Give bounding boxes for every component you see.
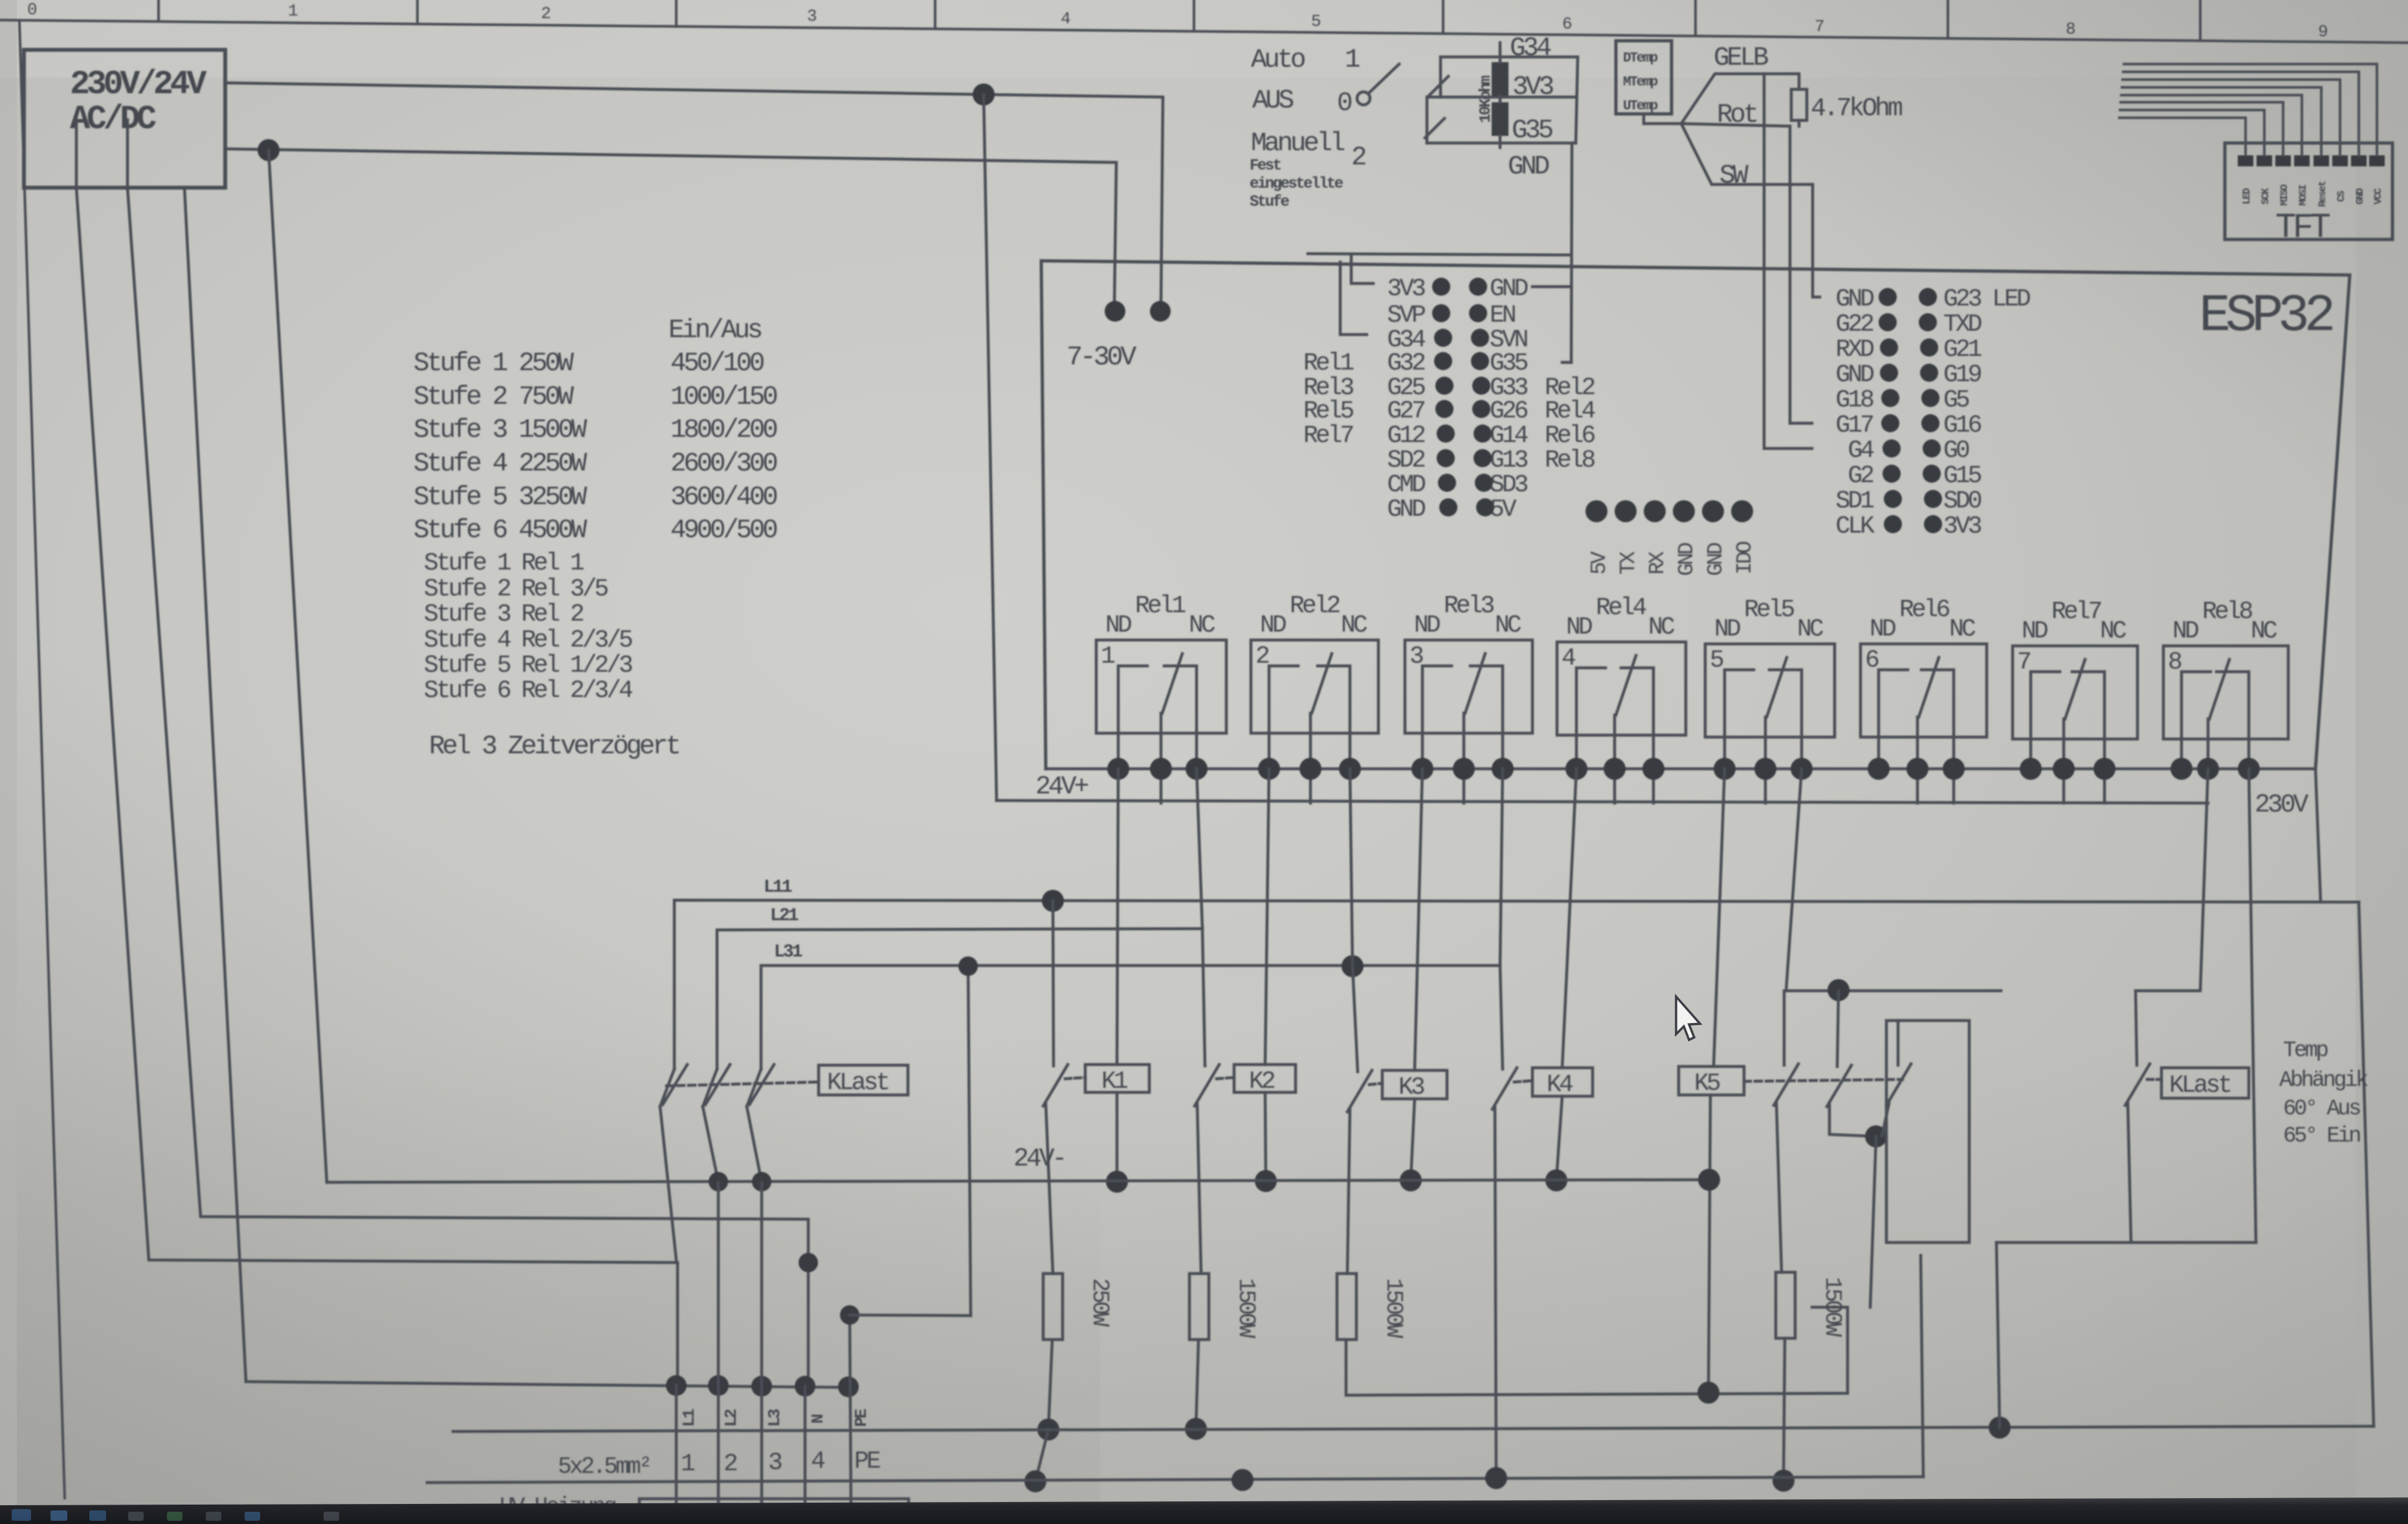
taskbar: [0, 1497, 2408, 1524]
connector label 3V3: [1512, 72, 1553, 102]
svg-text:G2: G2: [1848, 462, 1873, 490]
svg-text:GND: GND: [1836, 361, 1874, 389]
terminal 2: [708, 1375, 729, 1396]
svg-text:TXD: TXD: [1943, 311, 1982, 338]
svg-text:GND: GND: [1508, 152, 1549, 182]
wire H2 N return: [453, 1426, 2374, 1431]
svg-text:ND: ND: [1870, 615, 1895, 643]
relay Rel2: [1251, 592, 1378, 803]
load R3 1500W: [1337, 1274, 1356, 1340]
wire TFT bundle 3: [2123, 80, 2340, 155]
svg-text:GELB: GELB: [1714, 43, 1769, 73]
svg-text:24V+: 24V+: [1035, 773, 1088, 802]
wire TFT bundle 6: [2121, 102, 2283, 155]
svg-text:Rel5: Rel5: [1744, 596, 1794, 624]
svg-text:DTemp: DTemp: [1623, 51, 1658, 66]
svg-text:7: 7: [1815, 17, 1824, 36]
ruler baseline: [0, 20, 2408, 43]
svg-text:Rel4: Rel4: [1545, 397, 1595, 425]
TFT pins: [2238, 155, 2385, 166]
svg-text:ND: ND: [1714, 615, 1740, 643]
node 24V+ junction: [973, 83, 995, 105]
wire Rel2 NC to L31 to K3 contact: [1350, 769, 1358, 1072]
svg-text:Stufe 3 1500W: Stufe 3 1500W: [414, 415, 588, 445]
node t3 24V-: [752, 1172, 771, 1191]
svg-text:AC/DC: AC/DC: [70, 100, 156, 138]
svg-text:Rel4: Rel4: [1596, 594, 1646, 622]
svg-text:K5: K5: [1694, 1070, 1720, 1098]
wire Rot horizontal: [1681, 124, 1790, 126]
svg-text:24V-: 24V-: [1013, 1145, 1065, 1174]
wire Rel5 NC to K5 contacts bracket: [1786, 769, 1802, 991]
svg-text:Reset: Reset: [2317, 181, 2328, 207]
svg-text:Rel8: Rel8: [2202, 598, 2252, 626]
wire TFT bundle 2: [2123, 72, 2359, 155]
svg-text:3V3: 3V3: [1387, 275, 1426, 303]
svg-text:PE: PE: [854, 1448, 880, 1475]
svg-text:SD1: SD1: [1836, 487, 1874, 515]
svg-text:8: 8: [2066, 19, 2075, 39]
terminal labels rotated: [679, 1409, 871, 1427]
connector label G34: [1510, 34, 1551, 63]
svg-text:0: 0: [27, 0, 36, 19]
wire R1 to N: [1048, 1340, 1052, 1430]
resistor R 10Kohm upper: [1492, 62, 1508, 96]
svg-text:Rel1: Rel1: [1303, 349, 1353, 377]
terminal block: [246, 956, 978, 1520]
ESP32 left header Rel labels: [1303, 349, 1595, 474]
svg-text:eingestellte: eingestellte: [1250, 175, 1343, 193]
selector lever: [1357, 92, 1370, 105]
label 24V+: [1035, 773, 1088, 802]
svg-text:SD2: SD2: [1387, 447, 1426, 474]
wire K5 to 24V- to H1: [1708, 1095, 1710, 1393]
svg-text:CLK: CLK: [1836, 513, 1875, 540]
svg-text:G35: G35: [1512, 116, 1552, 146]
svg-text:K1: K1: [1101, 1068, 1127, 1096]
TFT module box: [2225, 143, 2392, 239]
svg-text:KLast: KLast: [827, 1069, 888, 1097]
svg-text:NC: NC: [1797, 615, 1824, 643]
svg-text:2: 2: [724, 1450, 737, 1478]
svg-text:G17: G17: [1836, 412, 1873, 439]
wire SW down to GND: [1813, 184, 1820, 297]
bracket UV: [639, 1499, 909, 1510]
svg-text:SD0: SD0: [1943, 487, 1982, 515]
wire L11: [674, 900, 2359, 1069]
svg-text:G5: G5: [1943, 386, 1969, 414]
rail 24V-: [327, 1180, 1708, 1182]
svg-text:Stufe 5 Rel 1/2/3: Stufe 5 Rel 1/2/3: [424, 652, 632, 679]
wire Rel3 NO to K3: [1415, 769, 1422, 1070]
wire R4 top from K5 contact: [1780, 1271, 1784, 1274]
svg-text:3600/400: 3600/400: [670, 483, 777, 513]
linkage dashes: [667, 1082, 819, 1086]
svg-text:G19: G19: [1943, 361, 1982, 389]
wire bracket to 3V3 pin: [1308, 254, 1571, 255]
svg-text:Abhängik: Abhängik: [2279, 1068, 2368, 1093]
wire TFT bundle 4: [2122, 87, 2321, 155]
svg-text:Stufe 3 Rel 2: Stufe 3 Rel 2: [424, 601, 584, 628]
note UV Heizung: [500, 1494, 615, 1520]
svg-text:Auto: Auto: [1251, 45, 1305, 75]
TFT pin labels: [2241, 181, 2384, 207]
svg-text:60° Aus: 60° Aus: [2283, 1097, 2360, 1121]
svg-text:G22: G22: [1836, 311, 1874, 338]
svg-text:G26: G26: [1490, 397, 1528, 425]
svg-text:RXD: RXD: [1836, 336, 1874, 364]
svg-text:Stufe 2 Rel 3/5: Stufe 2 Rel 3/5: [424, 575, 608, 603]
wire Rot down to G17: [1790, 126, 1812, 423]
svg-text:3: 3: [807, 6, 816, 26]
svg-text:K2: K2: [1249, 1068, 1275, 1096]
svg-text:SVP: SVP: [1387, 302, 1426, 329]
svg-text:Rel7: Rel7: [1303, 422, 1353, 450]
node t2 24V-: [709, 1172, 728, 1191]
ruler tick 0/1: [157, 0, 160, 21]
coil K2: [1234, 1065, 1296, 1092]
svg-text:Rel8: Rel8: [1545, 447, 1595, 474]
svg-text:L11: L11: [764, 878, 792, 898]
temp sensor block: [1616, 41, 1672, 114]
note temp thresholds: [2279, 1039, 2368, 1149]
relay Rel6: [1861, 596, 1987, 803]
connector cell line G35: [1427, 142, 1576, 145]
svg-text:Rel1: Rel1: [1135, 592, 1185, 620]
linkage K5: [1744, 1079, 1903, 1081]
coil K1: [1085, 1065, 1149, 1092]
svg-text:65° Ein: 65° Ein: [2283, 1124, 2360, 1149]
connector cell line 3V3: [1427, 97, 1574, 143]
svg-text:GND: GND: [1836, 285, 1874, 313]
taskbar icons: [12, 1509, 339, 1521]
svg-text:5: 5: [1710, 646, 1723, 674]
svg-text:K4: K4: [1547, 1071, 1573, 1099]
wire stub to ESP G35 pin: [1562, 361, 1571, 364]
svg-text:Rel7: Rel7: [2051, 598, 2101, 626]
svg-text:450/100: 450/100: [670, 349, 764, 379]
svg-text:2: 2: [541, 4, 550, 23]
wire H0: [246, 1382, 851, 1387]
svg-text:G16: G16: [1943, 412, 1982, 439]
terminal drops: [660, 1107, 676, 1260]
mouse cursor: [1676, 997, 1700, 1040]
svg-text:4900/500: 4900/500: [670, 516, 777, 546]
svg-text:GND: GND: [1387, 496, 1426, 524]
svg-text:SW: SW: [1719, 161, 1749, 191]
page frame left border: [19, 21, 65, 1498]
wire 24V- feed down-left: [269, 150, 327, 1182]
terminal 1: [666, 1375, 687, 1396]
left edge shading: [0, 0, 17, 1524]
svg-text:G21: G21: [1943, 336, 1982, 364]
svg-text:1: 1: [1345, 45, 1360, 75]
wire temp block to cable: [1644, 114, 1681, 124]
wire Rel1 NC to L21 to K2 contact: [1197, 769, 1205, 1066]
svg-text:CS: CS: [2336, 190, 2347, 202]
pin 7-30V left: [1105, 301, 1125, 322]
svg-text:0: 0: [1337, 89, 1352, 118]
svg-text:230V: 230V: [2255, 791, 2308, 820]
wire PE from box bottom: [184, 188, 246, 1381]
contact K4: [1492, 1068, 1532, 1478]
connector cell line G34: [1441, 57, 1578, 143]
wire Rel4 NO to K4: [1562, 769, 1576, 1068]
contact K1: [1043, 901, 1085, 1274]
riser H2 to temp loop: [1996, 1242, 2000, 1428]
contact KLast temp: [1870, 1021, 1911, 1307]
svg-text:G23 LED: G23 LED: [1943, 285, 2030, 313]
svg-text:KLast: KLast: [2169, 1072, 2230, 1099]
svg-text:1: 1: [1101, 643, 1114, 670]
wire bottom right horizontal: [1996, 1241, 2256, 1244]
selector contact upper: [1429, 76, 1448, 96]
selector contact lower: [1425, 118, 1444, 138]
svg-text:MISO: MISO: [2279, 184, 2290, 206]
svg-text:Temp: Temp: [2283, 1039, 2328, 1063]
ruler tick 4/5: [1193, 0, 1195, 31]
svg-text:UTemp: UTemp: [1623, 99, 1658, 114]
svg-text:Stufe 2 750W: Stufe 2 750W: [414, 382, 574, 412]
wire GELB down to G4: [1764, 74, 1812, 448]
serial header labels: [1587, 541, 1757, 576]
contact K2: [1195, 1065, 1234, 1274]
wire stub to ESP GND pin: [1532, 285, 1571, 289]
svg-text:Rel3: Rel3: [1444, 592, 1494, 620]
svg-text:1: 1: [288, 1, 298, 21]
wire R2 to N: [1196, 1340, 1198, 1429]
wire TFT bundle 5: [2121, 95, 2302, 155]
load R1 250W: [1043, 1274, 1063, 1340]
wire 24V+ out top: [225, 83, 1163, 304]
svg-text:3: 3: [768, 1449, 782, 1477]
coil K5: [1679, 1066, 1744, 1095]
ruler tick 1/2: [416, 0, 419, 24]
svg-text:1800/200: 1800/200: [670, 415, 777, 445]
ESP32 right header pins: [1879, 288, 1942, 533]
wire L31 tap down: [968, 966, 971, 1316]
svg-text:Stufe 5 3250W: Stufe 5 3250W: [414, 483, 588, 513]
svg-text:SCK: SCK: [2260, 188, 2271, 204]
wire L21: [717, 929, 1202, 1069]
wire K3 to 24V-: [1411, 1099, 1415, 1180]
svg-text:RX: RX: [1646, 551, 1670, 575]
resistor 4.7kOhm: [1791, 89, 1807, 120]
svg-text:Stufe 1 Rel 1: Stufe 1 Rel 1: [424, 549, 584, 577]
contactor KLast left contacts: [660, 1065, 819, 1260]
wire 24V- out: [225, 149, 1116, 304]
svg-text:Rel 3 Zeitverzögert: Rel 3 Zeitverzögert: [429, 732, 679, 762]
svg-text:G15: G15: [1943, 462, 1982, 490]
svg-text:L3: L3: [765, 1409, 784, 1427]
ruler numbers: [27, 0, 2327, 41]
ruler tick 8/9: [2199, 0, 2202, 41]
label SW: [1719, 161, 1749, 191]
svg-text:GND: GND: [2354, 188, 2366, 204]
ruler tick 2/3: [675, 0, 678, 27]
rail 24V+: [997, 801, 2208, 803]
svg-text:G4: G4: [1848, 437, 1873, 465]
svg-text:1000/150: 1000/150: [670, 382, 777, 412]
wire K4 to 24V-: [1556, 1096, 1562, 1180]
wire TFT bundle 7: [2120, 110, 2264, 155]
wire L31: [761, 966, 1500, 1069]
svg-text:Rel6: Rel6: [1899, 596, 1949, 624]
svg-text:Stufe 4 Rel 2/3/5: Stufe 4 Rel 2/3/5: [424, 626, 632, 654]
svg-text:9: 9: [2318, 22, 2327, 41]
wire PE to loads: [850, 1315, 971, 1316]
wire L11 right drop: [2359, 902, 2374, 1426]
coil KLast right: [2161, 1068, 2249, 1098]
svg-text:K3: K3: [1398, 1074, 1424, 1101]
terminal numbers: [558, 1448, 880, 1480]
svg-text:N: N: [808, 1415, 828, 1424]
svg-text:10Kohm: 10Kohm: [1477, 76, 1495, 123]
connector label GND: [1508, 152, 1549, 182]
svg-text:4: 4: [1061, 9, 1070, 28]
svg-text:GND: GND: [1675, 542, 1699, 576]
svg-text:4: 4: [1562, 645, 1575, 672]
svg-text:NC: NC: [1648, 613, 1675, 641]
wire Rel1 NO to K1: [1117, 769, 1118, 1065]
svg-text:G12: G12: [1387, 422, 1426, 450]
wire GND down to ESP: [1571, 143, 1572, 362]
svg-text:ND: ND: [1566, 613, 1592, 641]
svg-text:GND: GND: [1490, 275, 1528, 303]
svg-text:NC: NC: [2100, 617, 2126, 645]
wire TFT bundle 1: [2124, 64, 2377, 155]
svg-text:NC: NC: [2251, 617, 2277, 645]
svg-text:230V/24V: 230V/24V: [70, 65, 207, 104]
ruler tick 6/7: [1694, 0, 1697, 36]
svg-text:ND: ND: [1414, 612, 1440, 639]
svg-text:LED: LED: [2241, 188, 2253, 204]
loop temp contact: [1886, 1021, 1969, 1242]
svg-text:ND: ND: [1260, 612, 1286, 639]
node L31 tap: [1342, 955, 1364, 977]
svg-text:Stufe 4 2250W: Stufe 4 2250W: [414, 449, 588, 479]
wire 24V+ feed down to rail: [984, 94, 997, 801]
svg-text:ESP32: ESP32: [2199, 286, 2332, 346]
relay Rel8: [2163, 598, 2288, 780]
ESP32 right header labels: [1836, 285, 1875, 540]
cable hexagon: [1681, 74, 1813, 184]
wire H3 PE return: [427, 1477, 1923, 1483]
svg-text:G32: G32: [1387, 349, 1426, 377]
svg-text:NC: NC: [1341, 612, 1367, 639]
svg-text:Manuell: Manuell: [1251, 129, 1345, 159]
load R2 1500W: [1189, 1274, 1209, 1340]
wire TFT bundle 8: [2119, 118, 2246, 155]
power supply 230V/24V AC/DC box: [24, 50, 225, 188]
bus 230V relay commons: [1046, 768, 2315, 771]
coil KLast left: [819, 1065, 908, 1095]
wire N from box to terminal 4: [127, 120, 808, 1386]
svg-text:250W: 250W: [1087, 1278, 1113, 1327]
svg-text:8: 8: [2168, 648, 2182, 676]
serial header pins: [1585, 500, 1753, 522]
node L11 K1 tap: [1042, 890, 1064, 912]
svg-text:VCC: VCC: [2372, 188, 2384, 204]
svg-text:G0: G0: [1943, 437, 1969, 465]
svg-text:TFT: TFT: [2275, 208, 2330, 248]
relay Rel1: [1096, 592, 1226, 803]
svg-text:4.7kOhm: 4.7kOhm: [1811, 94, 1902, 124]
svg-text:IDO: IDO: [1733, 541, 1757, 575]
contact K3: [1347, 1070, 1382, 1274]
node 24V- junction: [258, 139, 280, 161]
wire K1 to 24V-: [1116, 1092, 1119, 1182]
ruler tick 3/4: [934, 0, 936, 28]
svg-text:NC: NC: [1495, 612, 1521, 639]
svg-text:Rel6: Rel6: [1545, 422, 1595, 450]
svg-text:ND: ND: [1105, 612, 1131, 639]
svg-text:Fest: Fest: [1250, 157, 1281, 175]
svg-text:CMD: CMD: [1387, 471, 1426, 499]
wire R3 to H1: [1346, 1307, 1848, 1395]
svg-text:Rel2: Rel2: [1290, 592, 1340, 620]
svg-text:NC: NC: [1949, 615, 1976, 643]
wire Rel5 NO to K5: [1714, 769, 1725, 1066]
wire K2 to 24V-: [1265, 1092, 1266, 1181]
svg-text:SD3: SD3: [1490, 471, 1528, 499]
label GELB: [1714, 43, 1769, 73]
wire Rel2 NO to K2: [1265, 769, 1269, 1065]
ruler tick 7/8: [1947, 0, 1949, 38]
label 230V: [2255, 791, 2308, 820]
svg-text:G34: G34: [1510, 34, 1551, 63]
svg-text:6: 6: [1562, 14, 1571, 34]
svg-text:Stufe 1 250W: Stufe 1 250W: [414, 349, 574, 379]
svg-text:ND: ND: [2022, 617, 2048, 645]
relay Rel5: [1705, 596, 1835, 803]
svg-text:5x2.5mm²: 5x2.5mm²: [558, 1453, 650, 1480]
svg-text:L31: L31: [774, 942, 802, 962]
svg-text:PE: PE: [852, 1409, 871, 1427]
terminal PE: [838, 1376, 859, 1397]
svg-text:G14: G14: [1490, 422, 1528, 450]
wire L1 from box to terminal 1: [76, 120, 678, 1386]
svg-text:L2: L2: [722, 1409, 741, 1427]
right edge shading: [2356, 0, 2408, 1524]
svg-text:GND: GND: [1704, 542, 1728, 576]
svg-text:2600/300: 2600/300: [670, 449, 777, 479]
svg-text:G13: G13: [1490, 447, 1528, 474]
relay Rel3: [1405, 592, 1532, 803]
svg-text:MTemp: MTemp: [1623, 75, 1658, 90]
svg-text:1500W: 1500W: [1819, 1277, 1846, 1337]
node N x L1 feed: [799, 1253, 818, 1272]
svg-text:L21: L21: [770, 906, 799, 926]
connector label G35: [1512, 116, 1552, 146]
value 10Kohm: [1477, 76, 1495, 123]
svg-text:1: 1: [681, 1450, 694, 1478]
svg-text:5V: 5V: [1587, 551, 1611, 575]
relay Rel7: [2013, 598, 2137, 803]
svg-text:G18: G18: [1836, 386, 1874, 414]
svg-text:Ein/Aus: Ein/Aus: [668, 316, 762, 346]
wire Rel3 NC to L31 corner to K4 contact: [1500, 769, 1503, 1069]
svg-text:Rel5: Rel5: [1303, 397, 1353, 425]
contact KLast right: [2125, 1064, 2161, 1242]
terminal 3: [751, 1376, 772, 1397]
contact K5 b: [1827, 991, 1887, 1147]
load R4 1500W: [1776, 1272, 1795, 1338]
svg-text:2: 2: [1351, 143, 1365, 173]
svg-text:2: 2: [1255, 643, 1269, 670]
note Stufe relay map: [424, 549, 632, 705]
resistor pin ticks: [1499, 43, 1502, 62]
